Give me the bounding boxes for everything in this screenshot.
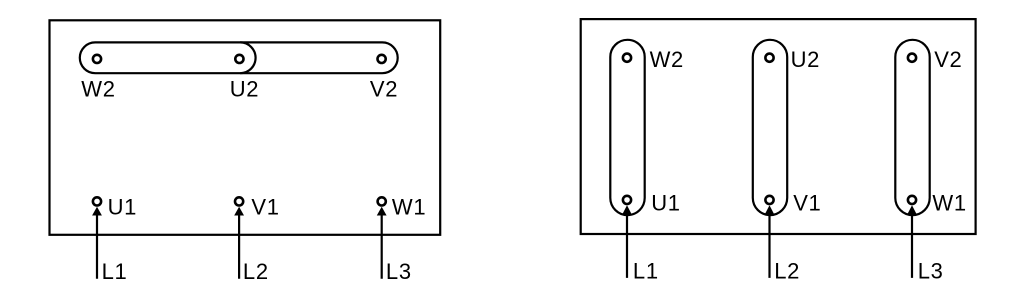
link V2-W1 xyxy=(895,40,929,215)
terminal U1 xyxy=(93,197,101,205)
wire L1 to U1 xyxy=(92,207,102,279)
link bar W2-U2-V2 xyxy=(80,42,398,73)
svg-text:L3: L3 xyxy=(918,259,944,284)
link W2-U2 (inner cap arc at U2) xyxy=(240,42,255,73)
terminal V2 xyxy=(378,55,386,63)
link W2-U1 xyxy=(610,40,644,215)
svg-text:V1: V1 xyxy=(251,195,279,220)
terminal W1 xyxy=(378,197,386,205)
terminal box (delta connection) xyxy=(581,19,976,234)
terminal U2 (delta) xyxy=(765,54,773,62)
svg-text:U1: U1 xyxy=(108,195,138,220)
svg-text:L1: L1 xyxy=(102,259,128,284)
wire L3 to W1 xyxy=(377,207,387,279)
svg-text:W2: W2 xyxy=(650,47,684,72)
wire L2 to V1 (delta) xyxy=(765,205,775,278)
svg-text:U1: U1 xyxy=(651,190,681,215)
terminal V1 xyxy=(235,197,243,205)
svg-text:L2: L2 xyxy=(243,259,269,284)
svg-text:V1: V1 xyxy=(793,190,821,215)
terminal box (star connection) xyxy=(50,20,441,235)
terminal W2 xyxy=(93,55,101,63)
svg-text:V2: V2 xyxy=(934,47,962,72)
wire L3 to W1 (delta) xyxy=(907,205,917,278)
svg-text:W1: W1 xyxy=(392,195,426,220)
svg-text:L2: L2 xyxy=(774,259,800,284)
wire L1 to U1 (delta) xyxy=(622,205,632,278)
wire L2 to V1 xyxy=(234,207,244,279)
svg-text:L3: L3 xyxy=(386,259,412,284)
terminal U2 xyxy=(235,55,243,63)
svg-text:U2: U2 xyxy=(791,47,821,72)
terminal U1 (delta) xyxy=(623,196,631,204)
svg-text:W2: W2 xyxy=(81,77,115,102)
svg-text:L1: L1 xyxy=(633,259,659,284)
svg-text:W1: W1 xyxy=(932,190,966,215)
terminal V1 (delta) xyxy=(765,196,773,204)
terminal W2 (delta) xyxy=(623,54,631,62)
link U2-V1 xyxy=(753,40,787,215)
terminal W1 (delta) xyxy=(908,196,916,204)
terminal V2 (delta) xyxy=(908,54,916,62)
svg-text:V2: V2 xyxy=(370,77,398,102)
svg-text:U2: U2 xyxy=(230,77,260,102)
